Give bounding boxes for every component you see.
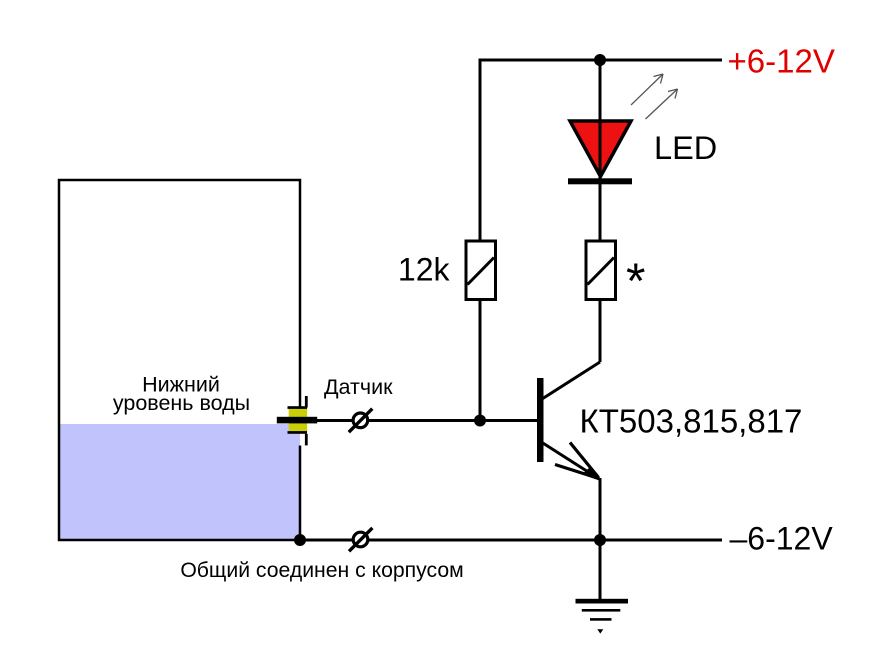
connector X2 bbox=[349, 528, 372, 551]
node base junction bbox=[474, 415, 486, 427]
ground bar 2 bbox=[582, 609, 621, 612]
sensor wire from tank bbox=[317, 419, 352, 422]
svg-text:–6-12V: –6-12V bbox=[730, 521, 834, 557]
base wire bbox=[369, 419, 537, 422]
connector X1 bbox=[349, 409, 373, 433]
resistor R2 body bbox=[586, 241, 616, 300]
svg-text:уровень воды: уровень воды bbox=[113, 391, 250, 415]
water fill bbox=[59, 424, 300, 540]
tank walls bbox=[59, 180, 300, 540]
svg-text:12k: 12k bbox=[398, 252, 451, 288]
svg-text:*: * bbox=[626, 253, 645, 309]
emitter lead bbox=[542, 443, 600, 480]
wire left vertical to R1 bbox=[479, 59, 482, 241]
node emitter junction bbox=[594, 534, 606, 546]
wire R1 bottom to base node bbox=[479, 300, 482, 421]
svg-text:Общий соединен с корпусом: Общий соединен с корпусом bbox=[180, 559, 463, 582]
node junction top bbox=[594, 54, 606, 66]
emitter wire down bbox=[599, 478, 602, 540]
collector lead bbox=[542, 362, 600, 399]
bottom rail wire bbox=[300, 539, 722, 542]
svg-text:КТ503,815,817: КТ503,815,817 bbox=[580, 403, 803, 440]
emitter arrow head bbox=[582, 467, 601, 482]
LED cathode bar bbox=[568, 178, 632, 184]
LED D1 bbox=[570, 121, 631, 177]
emitter arrow barb upper bbox=[570, 443, 599, 478]
light ray arrow 2 bbox=[646, 89, 678, 119]
ground lead bbox=[599, 540, 602, 599]
sensor insulator top break bbox=[305, 396, 308, 408]
resistor R1 12k body bbox=[466, 241, 496, 300]
sensor insulator bottom break bbox=[305, 434, 308, 446]
sensor body yellow bbox=[289, 408, 308, 433]
sensor caps bbox=[288, 406, 308, 409]
transistor VT1 base bar bbox=[537, 378, 544, 462]
svg-text:LED: LED bbox=[654, 130, 717, 166]
svg-text:Датчик: Датчик bbox=[324, 375, 393, 399]
sensor electrode bar bbox=[277, 417, 317, 424]
node tank common bbox=[294, 534, 306, 546]
ground bar 3 bbox=[590, 618, 612, 621]
top rail wire bbox=[480, 59, 722, 62]
svg-text:+6-12V: +6-12V bbox=[728, 43, 835, 80]
ground bar 1 bbox=[576, 599, 629, 604]
ground tip bbox=[597, 629, 603, 633]
emitter arrow barb lower bbox=[555, 465, 599, 479]
wire through LED bbox=[599, 60, 602, 240]
wire R2 bottom to collector bbox=[599, 300, 602, 362]
light ray arrow 1 bbox=[631, 74, 663, 105]
